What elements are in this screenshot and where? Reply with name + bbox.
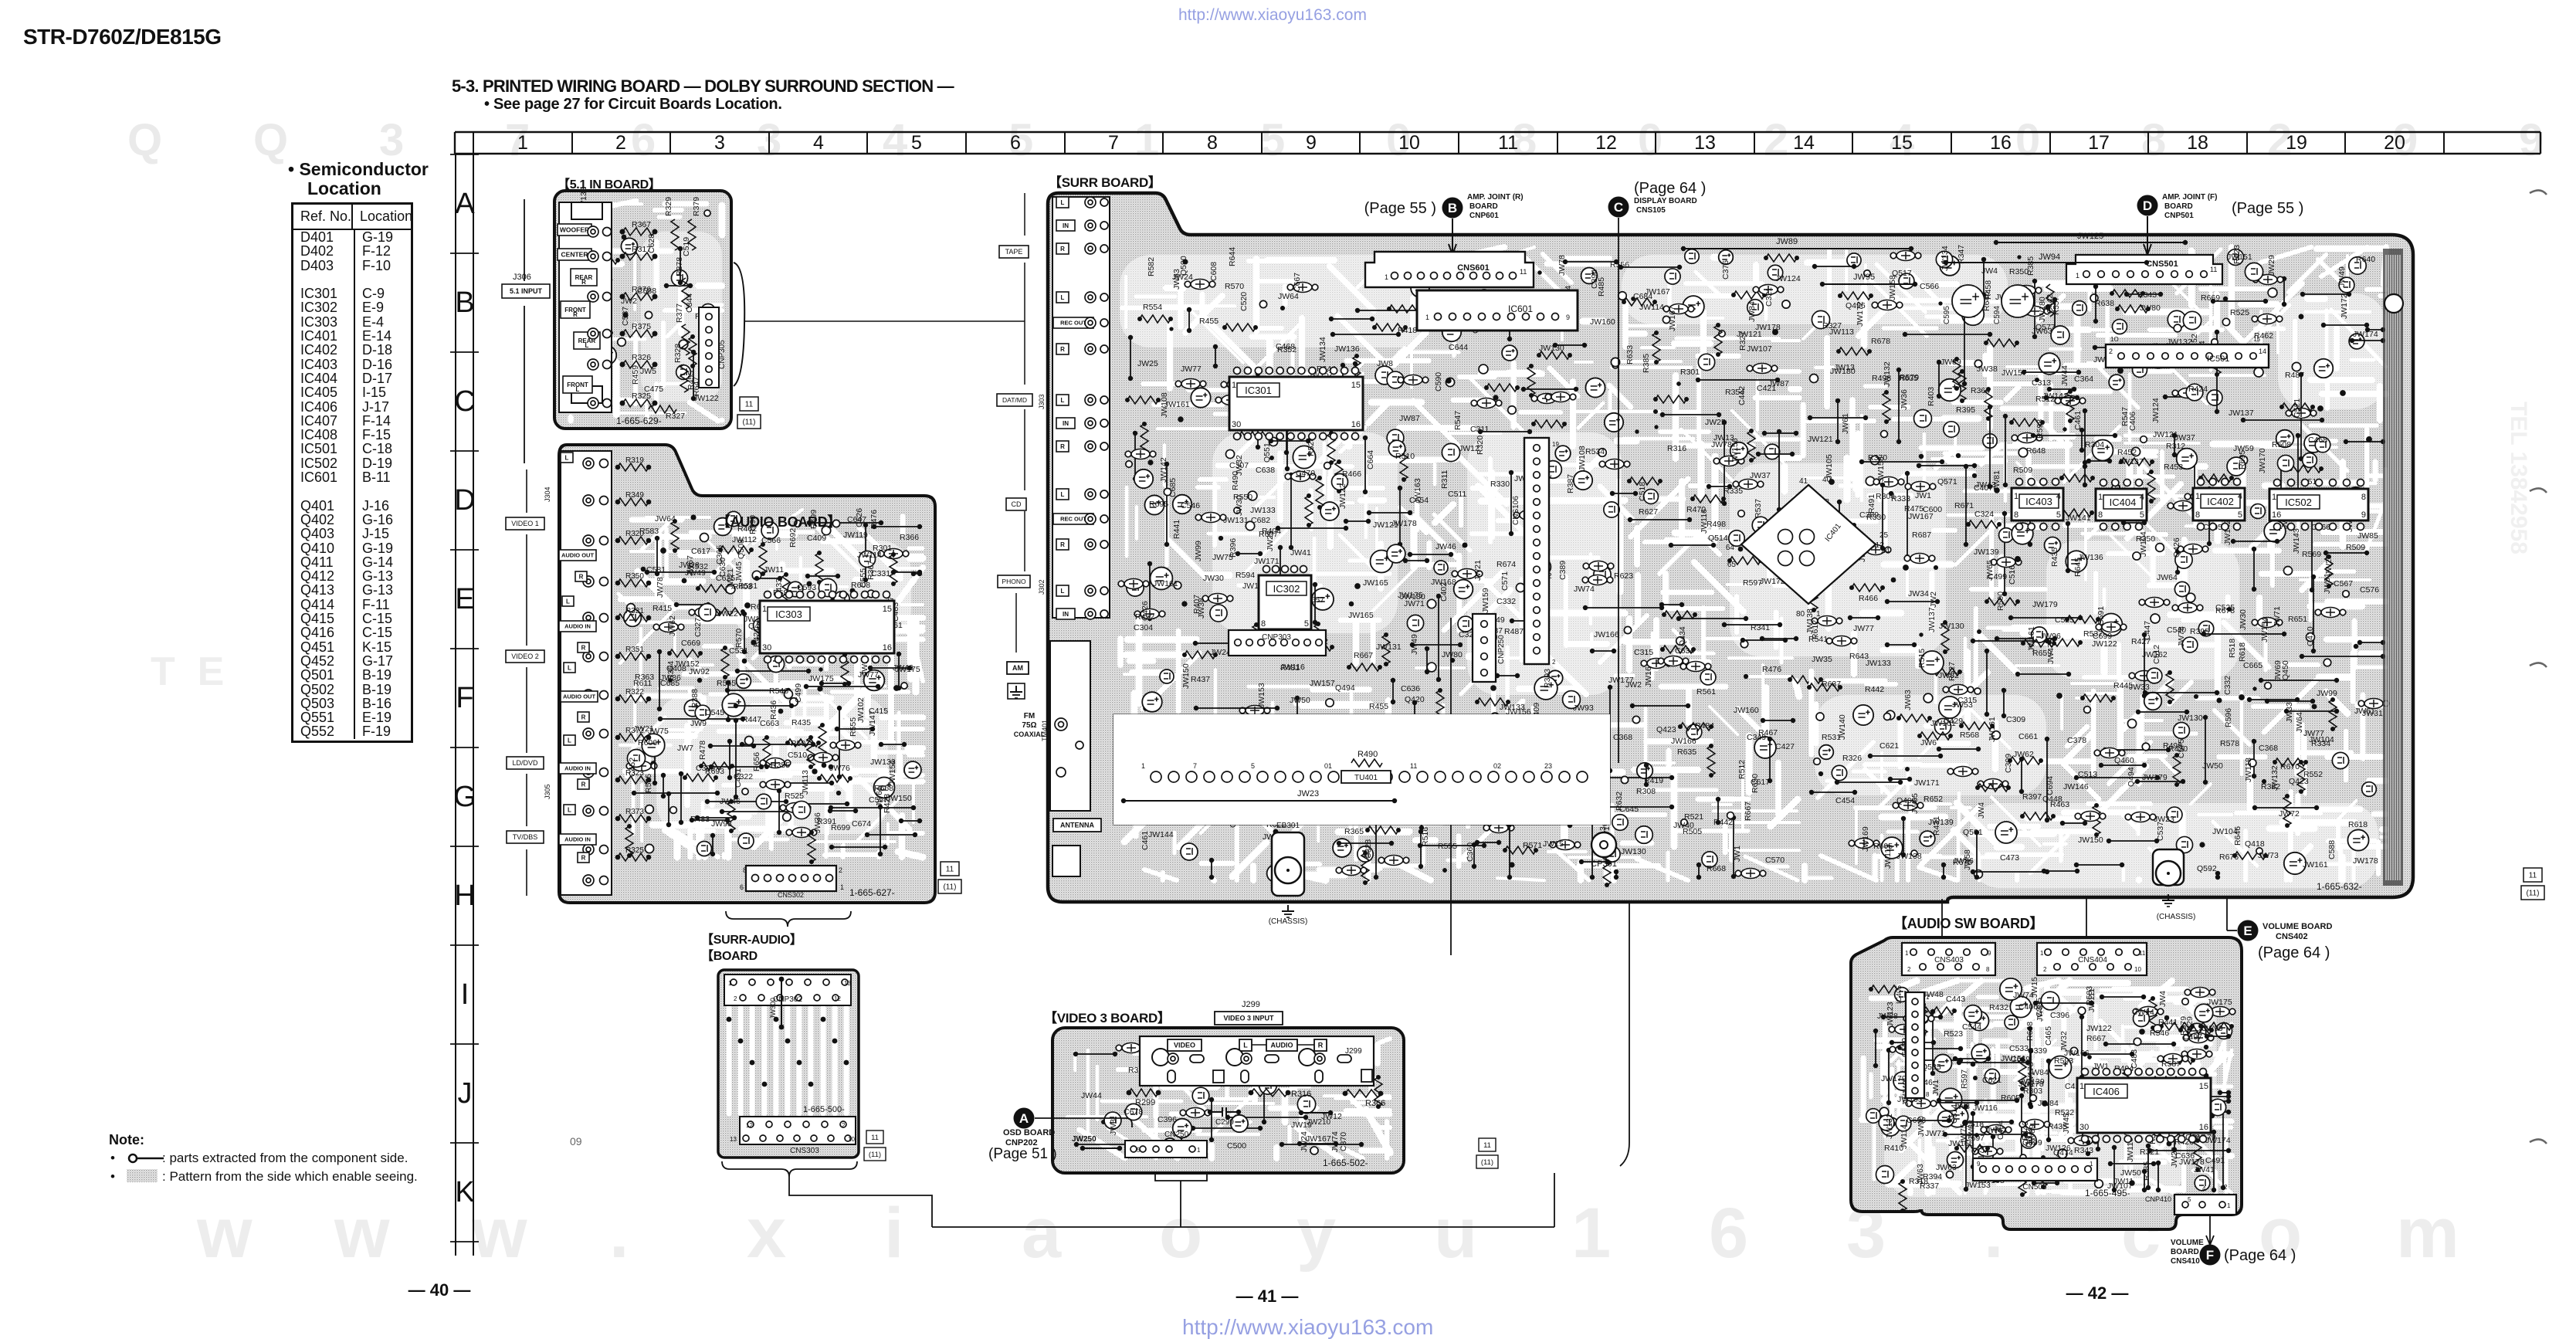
transistor	[1612, 815, 1628, 830]
wire	[839, 708, 840, 777]
pad	[2070, 1047, 2077, 1054]
svg-text:J305: J305	[544, 784, 551, 799]
svg-text:8: 8	[2014, 510, 2018, 520]
svg-text:R487: R487	[1504, 627, 1524, 636]
svg-text:9: 9	[1988, 950, 1991, 957]
svg-text:JW71: JW71	[1925, 1129, 1946, 1138]
svg-text:R379: R379	[692, 197, 701, 216]
wire	[1238, 553, 1260, 554]
pad	[1446, 378, 1454, 386]
top url watermark	[1178, 6, 1367, 25]
svg-text:R668: R668	[1707, 864, 1726, 873]
svg-text:CNS105: CNS105	[1636, 206, 1666, 215]
svg-text:C595: C595	[1943, 306, 1951, 324]
svg-text:JW15: JW15	[1543, 839, 1564, 849]
resistor	[1534, 420, 1564, 428]
svg-text:JW77: JW77	[1181, 364, 1202, 374]
transistor	[1896, 1116, 1911, 1131]
svg-text:R328: R328	[673, 344, 683, 363]
svg-text:R512: R512	[1737, 760, 1747, 779]
pad	[1490, 713, 1500, 722]
svg-text:R299: R299	[1135, 1098, 1155, 1107]
resistor	[1899, 714, 1930, 722]
via	[1509, 862, 1514, 867]
svg-text:EB301: EB301	[1276, 822, 1300, 830]
resistor	[2213, 345, 2221, 375]
capacitor	[1753, 364, 1771, 374]
svg-text:C571: C571	[1500, 571, 1510, 591]
svg-text:C570: C570	[1765, 856, 1785, 865]
svg-text:JW130: JW130	[1939, 622, 1964, 631]
svg-text:VIDEO 1: VIDEO 1	[511, 520, 539, 527]
section title	[452, 76, 954, 97]
via	[2025, 1170, 2031, 1176]
svg-text:8: 8	[743, 866, 747, 874]
capacitor	[1647, 659, 1666, 669]
capacitor	[2189, 1033, 2208, 1043]
svg-text:JW114: JW114	[1900, 1124, 1909, 1149]
svg-text:C567: C567	[2334, 579, 2353, 588]
svg-text:C313: C313	[2032, 378, 2051, 388]
wire	[1810, 417, 1866, 419]
svg-text:JW133: JW133	[1866, 659, 1891, 668]
5.1 board jacks and resistors	[588, 226, 598, 237]
transistor	[1477, 290, 1491, 303]
svg-text:Q551: Q551	[1263, 442, 1272, 463]
wire	[2003, 690, 2005, 716]
capacitor	[1855, 839, 1873, 849]
svg-text:【SURR BOARD】: 【SURR BOARD】	[1049, 175, 1161, 190]
via	[1631, 297, 1635, 301]
svg-text:19: 19	[1552, 441, 1559, 448]
svg-text:R407: R407	[1192, 595, 1202, 614]
svg-text:R507: R507	[791, 739, 810, 748]
wire	[2106, 1043, 2174, 1045]
big ecaps C595 C594 R557	[1952, 285, 1985, 317]
via	[1450, 658, 1455, 663]
ghost scan watermark row bottom	[0, 0, 1, 1]
via	[1446, 378, 1451, 383]
svg-text:(11): (11)	[2526, 890, 2539, 898]
pad	[1924, 693, 1933, 703]
svg-text:64: 64	[1726, 544, 1735, 552]
wire	[727, 690, 788, 691]
svg-text:L: L	[568, 806, 571, 813]
svg-text:JW161: JW161	[2303, 860, 2328, 870]
electrolytic capacitor	[2049, 1056, 2072, 1079]
via	[2317, 405, 2323, 412]
wire	[1912, 1059, 1961, 1061]
svg-text:AUDIO IN: AUDIO IN	[564, 836, 591, 843]
svg-text:2: 2	[734, 995, 737, 1002]
svg-text:J: J	[458, 1077, 473, 1110]
via	[1654, 425, 1658, 429]
audio sw light zones	[1884, 988, 2216, 1197]
svg-text:JW130: JW130	[2178, 714, 2203, 723]
svg-text:C566: C566	[761, 536, 781, 545]
pad	[790, 698, 798, 707]
wire	[1290, 475, 1292, 547]
svg-text:R667: R667	[1744, 802, 1753, 821]
via	[1818, 771, 1823, 776]
svg-text:JW163: JW163	[1413, 478, 1422, 503]
svg-text:R570: R570	[1225, 282, 1244, 291]
pad	[1479, 364, 1488, 374]
capacitor	[1490, 823, 1508, 833]
resistor	[1985, 389, 1992, 419]
pad	[1886, 710, 1895, 720]
capacitor	[2164, 1054, 2182, 1064]
via	[2056, 693, 2062, 699]
pad	[2012, 290, 2022, 299]
capacitor	[1896, 251, 1915, 261]
resistor	[1286, 740, 1317, 747]
svg-text:R466: R466	[1859, 594, 1878, 603]
via	[1938, 301, 1942, 305]
svg-text:19: 19	[2286, 132, 2307, 154]
via	[1919, 632, 1923, 636]
svg-text:JW36: JW36	[813, 812, 822, 833]
capacitor	[2364, 699, 2383, 709]
pad	[1881, 431, 1888, 438]
resistor	[1327, 433, 1335, 463]
svg-text:CNP410: CNP410	[2145, 1195, 2171, 1203]
resistor	[1127, 396, 1158, 404]
wire	[1887, 601, 1937, 602]
svg-text:JW165: JW165	[1348, 611, 1374, 620]
wire	[1839, 502, 1840, 546]
svg-text:L: L	[568, 737, 571, 744]
wire	[1892, 1042, 1934, 1043]
svg-text:(Page 55 ): (Page 55 )	[1364, 200, 1436, 217]
svg-text:R550: R550	[1233, 493, 1252, 502]
wire	[798, 642, 877, 643]
via	[1490, 685, 1496, 691]
wire	[1769, 739, 1771, 781]
wire	[798, 803, 847, 805]
pad	[1864, 270, 1871, 277]
resistor	[1929, 668, 1960, 676]
electrolytic capacitor	[1881, 1117, 1900, 1136]
svg-text:JW11: JW11	[2113, 1177, 2134, 1186]
svg-text:JW99: JW99	[1194, 541, 1203, 561]
wire	[1211, 860, 1212, 877]
capacitor	[1669, 304, 1688, 314]
svg-text:JW33: JW33	[2285, 702, 2294, 723]
capacitor	[2099, 269, 2117, 279]
wire	[1875, 1031, 1876, 1066]
electrolytic capacitor	[873, 777, 894, 798]
wire	[1271, 440, 1308, 442]
electrolytic capacitor	[2177, 449, 2198, 469]
svg-text:9: 9	[1977, 1161, 1981, 1168]
svg-text:R534: R534	[1585, 447, 1605, 456]
capacitor	[1759, 285, 1778, 295]
resistor	[1852, 584, 1883, 592]
svg-text:R475: R475	[1904, 504, 1924, 514]
svg-text:10: 10	[1398, 132, 1420, 154]
electrolytic capacitor	[864, 670, 885, 691]
svg-text:R327: R327	[666, 412, 685, 421]
svg-text:L: L	[1061, 199, 1065, 206]
transistor	[1297, 1095, 1315, 1113]
svg-text:Q420: Q420	[1405, 695, 1425, 704]
svg-text:C332: C332	[1496, 597, 1516, 606]
electrolytic capacitor	[1939, 1088, 1961, 1110]
pad	[1246, 521, 1254, 530]
svg-text:R509: R509	[2346, 543, 2365, 552]
svg-text:JW62: JW62	[2013, 750, 2034, 759]
svg-text:JW84: JW84	[1747, 301, 1757, 322]
resistor	[1140, 315, 1171, 323]
pad	[1602, 726, 1609, 734]
svg-text:R435: R435	[791, 718, 811, 727]
svg-text:JW131: JW131	[1885, 1114, 1894, 1139]
electrolytic capacitor	[684, 700, 700, 716]
svg-text:L: L	[1243, 1042, 1248, 1049]
svg-text:JW137: JW137	[2229, 408, 2254, 418]
svg-text:JW166: JW166	[1594, 630, 1619, 639]
transistor	[2245, 263, 2262, 280]
via	[1962, 1120, 1968, 1126]
svg-text:R: R	[579, 573, 584, 580]
wire	[2109, 840, 2157, 842]
pad	[2239, 456, 2247, 464]
wire	[2076, 777, 2157, 778]
svg-text:AUDIO OUT: AUDIO OUT	[561, 552, 595, 559]
svg-text:C693: C693	[1907, 1116, 1926, 1125]
svg-text:JW170: JW170	[2258, 448, 2267, 473]
svg-text:4: 4	[2140, 493, 2144, 502]
wire	[2216, 332, 2218, 412]
svg-text:JW179: JW179	[2032, 600, 2058, 609]
resistor	[801, 606, 808, 636]
svg-text:JW99: JW99	[2202, 1024, 2223, 1033]
svg-text:J303: J303	[1038, 394, 1046, 409]
svg-text:JW75: JW75	[648, 727, 669, 736]
svg-text:CNS601: CNS601	[1457, 263, 1490, 273]
wire	[808, 575, 838, 577]
svg-text:VIDEO 2: VIDEO 2	[511, 653, 539, 660]
svg-text:C525: C525	[2215, 603, 2235, 612]
capacitor	[1741, 869, 1760, 879]
svg-text:JW132: JW132	[1883, 361, 1892, 387]
svg-text:AUDIO IN: AUDIO IN	[564, 765, 591, 772]
resistor	[807, 737, 815, 767]
transistor	[1698, 354, 1714, 370]
resistor	[689, 337, 697, 366]
page number 40	[393, 1280, 486, 1300]
via	[830, 598, 836, 604]
svg-text:R612: R612	[1811, 620, 1820, 639]
via	[2084, 1112, 2089, 1117]
svg-text:IN: IN	[1063, 420, 1069, 427]
svg-text:JW132: JW132	[2270, 765, 2279, 791]
svg-text:R623: R623	[2232, 245, 2242, 264]
capacitor	[1491, 266, 1510, 276]
capacitor	[1910, 1014, 1928, 1024]
svg-text:R393: R393	[1543, 669, 1552, 688]
via	[2117, 368, 2124, 374]
vertical ties for source labels	[1024, 193, 1025, 236]
svg-text:Q577: Q577	[2035, 323, 2056, 332]
pad	[2154, 1025, 2161, 1032]
wire	[1581, 861, 1608, 863]
EB502 chassis lug	[2153, 849, 2184, 885]
svg-text:C311: C311	[1470, 425, 1489, 434]
resistor	[2147, 472, 2155, 501]
wire	[1357, 310, 1431, 311]
resistor	[2297, 762, 2305, 792]
resistor	[1400, 450, 1408, 480]
via	[2216, 697, 2222, 703]
svg-text:DAT/MD: DAT/MD	[1002, 396, 1027, 404]
capacitor	[2018, 433, 2036, 443]
svg-text:JW86: JW86	[1953, 856, 1974, 866]
wire	[654, 748, 656, 783]
wire	[1420, 832, 1422, 866]
electrolytic capacitor	[1555, 446, 1571, 461]
electrolytic capacitor	[2188, 1023, 2205, 1041]
svg-text:C546: C546	[1181, 501, 1200, 510]
wire	[880, 807, 881, 854]
wire	[2081, 430, 2083, 450]
svg-text:JW63: JW63	[1916, 1164, 1925, 1185]
svg-text:BOARD: BOARD	[1469, 202, 1498, 211]
pad	[2084, 707, 2091, 714]
svg-text:16: 16	[883, 643, 892, 653]
svg-text:2: 2	[2224, 1184, 2228, 1191]
connector labels WOOFER..FRONT L	[558, 224, 591, 236]
svg-text:Q514: Q514	[1708, 534, 1728, 543]
surr option boxes	[2523, 868, 2542, 882]
resistor	[1747, 431, 1755, 460]
svg-text:C591: C591	[2096, 606, 2106, 625]
wire	[1763, 720, 1793, 721]
capacitor	[2131, 812, 2150, 822]
svg-text:16: 16	[2272, 510, 2281, 520]
transistor	[1181, 843, 1198, 860]
pad	[1427, 663, 1436, 672]
capacitor	[632, 761, 651, 771]
CNP410	[2174, 1195, 2236, 1215]
electrolytic capacitor	[1312, 588, 1334, 610]
wire	[2137, 781, 2183, 782]
svg-text:JW153: JW153	[1965, 1181, 1991, 1190]
svg-text:JW16: JW16	[1644, 666, 1653, 687]
via	[660, 547, 666, 554]
resistor	[1968, 520, 1999, 528]
svg-text:R: R	[1060, 346, 1065, 353]
via	[2215, 502, 2219, 507]
resistor	[2149, 998, 2157, 1028]
resistor	[778, 627, 809, 635]
wire	[2048, 1061, 2049, 1140]
transistor	[2209, 1099, 2225, 1115]
wire	[893, 571, 920, 573]
capacitor	[1949, 685, 1968, 695]
wire	[2249, 699, 2297, 700]
B stub line	[1452, 219, 1453, 257]
via	[2204, 1045, 2208, 1049]
pad	[1974, 688, 1981, 694]
wire	[2352, 340, 2383, 341]
capacitor	[1520, 510, 1538, 520]
svg-text:F: F	[2206, 1248, 2214, 1263]
svg-text:8: 8	[1261, 619, 1266, 629]
svg-text:13: 13	[1694, 132, 1716, 154]
capacitor	[1477, 398, 1496, 408]
capacitor	[1686, 662, 1705, 672]
pad	[1516, 583, 1524, 592]
svg-text:R388: R388	[690, 689, 700, 708]
svg-text:CENTER: CENTER	[561, 251, 588, 259]
svg-text:JW44: JW44	[2060, 365, 2069, 386]
svg-text:R312: R312	[2166, 442, 2185, 451]
electrolytic capacitor	[1585, 378, 1605, 397]
wire	[1480, 431, 1530, 432]
svg-text:E: E	[455, 583, 474, 615]
resistor	[819, 725, 826, 754]
transistor	[2362, 782, 2377, 797]
svg-text:JW84: JW84	[2038, 1099, 2059, 1108]
via	[2086, 1151, 2090, 1156]
svg-text:JW41: JW41	[1290, 548, 1311, 558]
capacitor	[2061, 396, 2079, 406]
wire	[1530, 561, 1531, 635]
wire	[2174, 436, 2175, 455]
svg-text:R436: R436	[769, 700, 778, 720]
JW250	[1083, 1147, 1120, 1149]
svg-text:13: 13	[730, 1136, 737, 1143]
svg-text:JW134: JW134	[1318, 337, 1327, 362]
pad	[2292, 362, 2300, 371]
wire	[1130, 337, 1131, 378]
svg-text:JW29: JW29	[2267, 255, 2276, 276]
wire	[2081, 1017, 2083, 1077]
capacitor	[1202, 513, 1220, 523]
svg-text:JW21: JW21	[1473, 560, 1483, 581]
wire	[1290, 838, 1292, 859]
svg-text:80: 80	[1796, 610, 1805, 619]
via	[622, 235, 627, 240]
svg-text:R397: R397	[2022, 792, 2042, 802]
svg-text:R537: R537	[2083, 629, 2103, 639]
transistor	[1192, 1087, 1209, 1104]
wire	[1076, 1144, 1159, 1145]
resistor	[1629, 477, 1660, 485]
capacitor	[1291, 472, 1310, 482]
resistor	[1978, 784, 2008, 792]
via	[1219, 536, 1223, 541]
svg-text:1: 1	[2076, 272, 2079, 280]
svg-text:J306: J306	[513, 273, 531, 282]
via	[2340, 390, 2346, 396]
svg-text:R635: R635	[1677, 747, 1696, 757]
svg-text:R490: R490	[1357, 750, 1378, 759]
svg-text:JW76: JW76	[829, 764, 850, 773]
electrolytic capacitor	[1581, 268, 1598, 284]
pad	[2323, 659, 2331, 666]
svg-text:R: R	[1060, 541, 1065, 548]
wire	[1724, 422, 1725, 503]
wire	[1918, 1048, 1961, 1049]
capacitor	[1720, 456, 1738, 466]
resistor	[2329, 700, 2337, 729]
pad	[807, 622, 813, 629]
svg-text:R638: R638	[2095, 299, 2114, 308]
wire	[647, 571, 714, 573]
